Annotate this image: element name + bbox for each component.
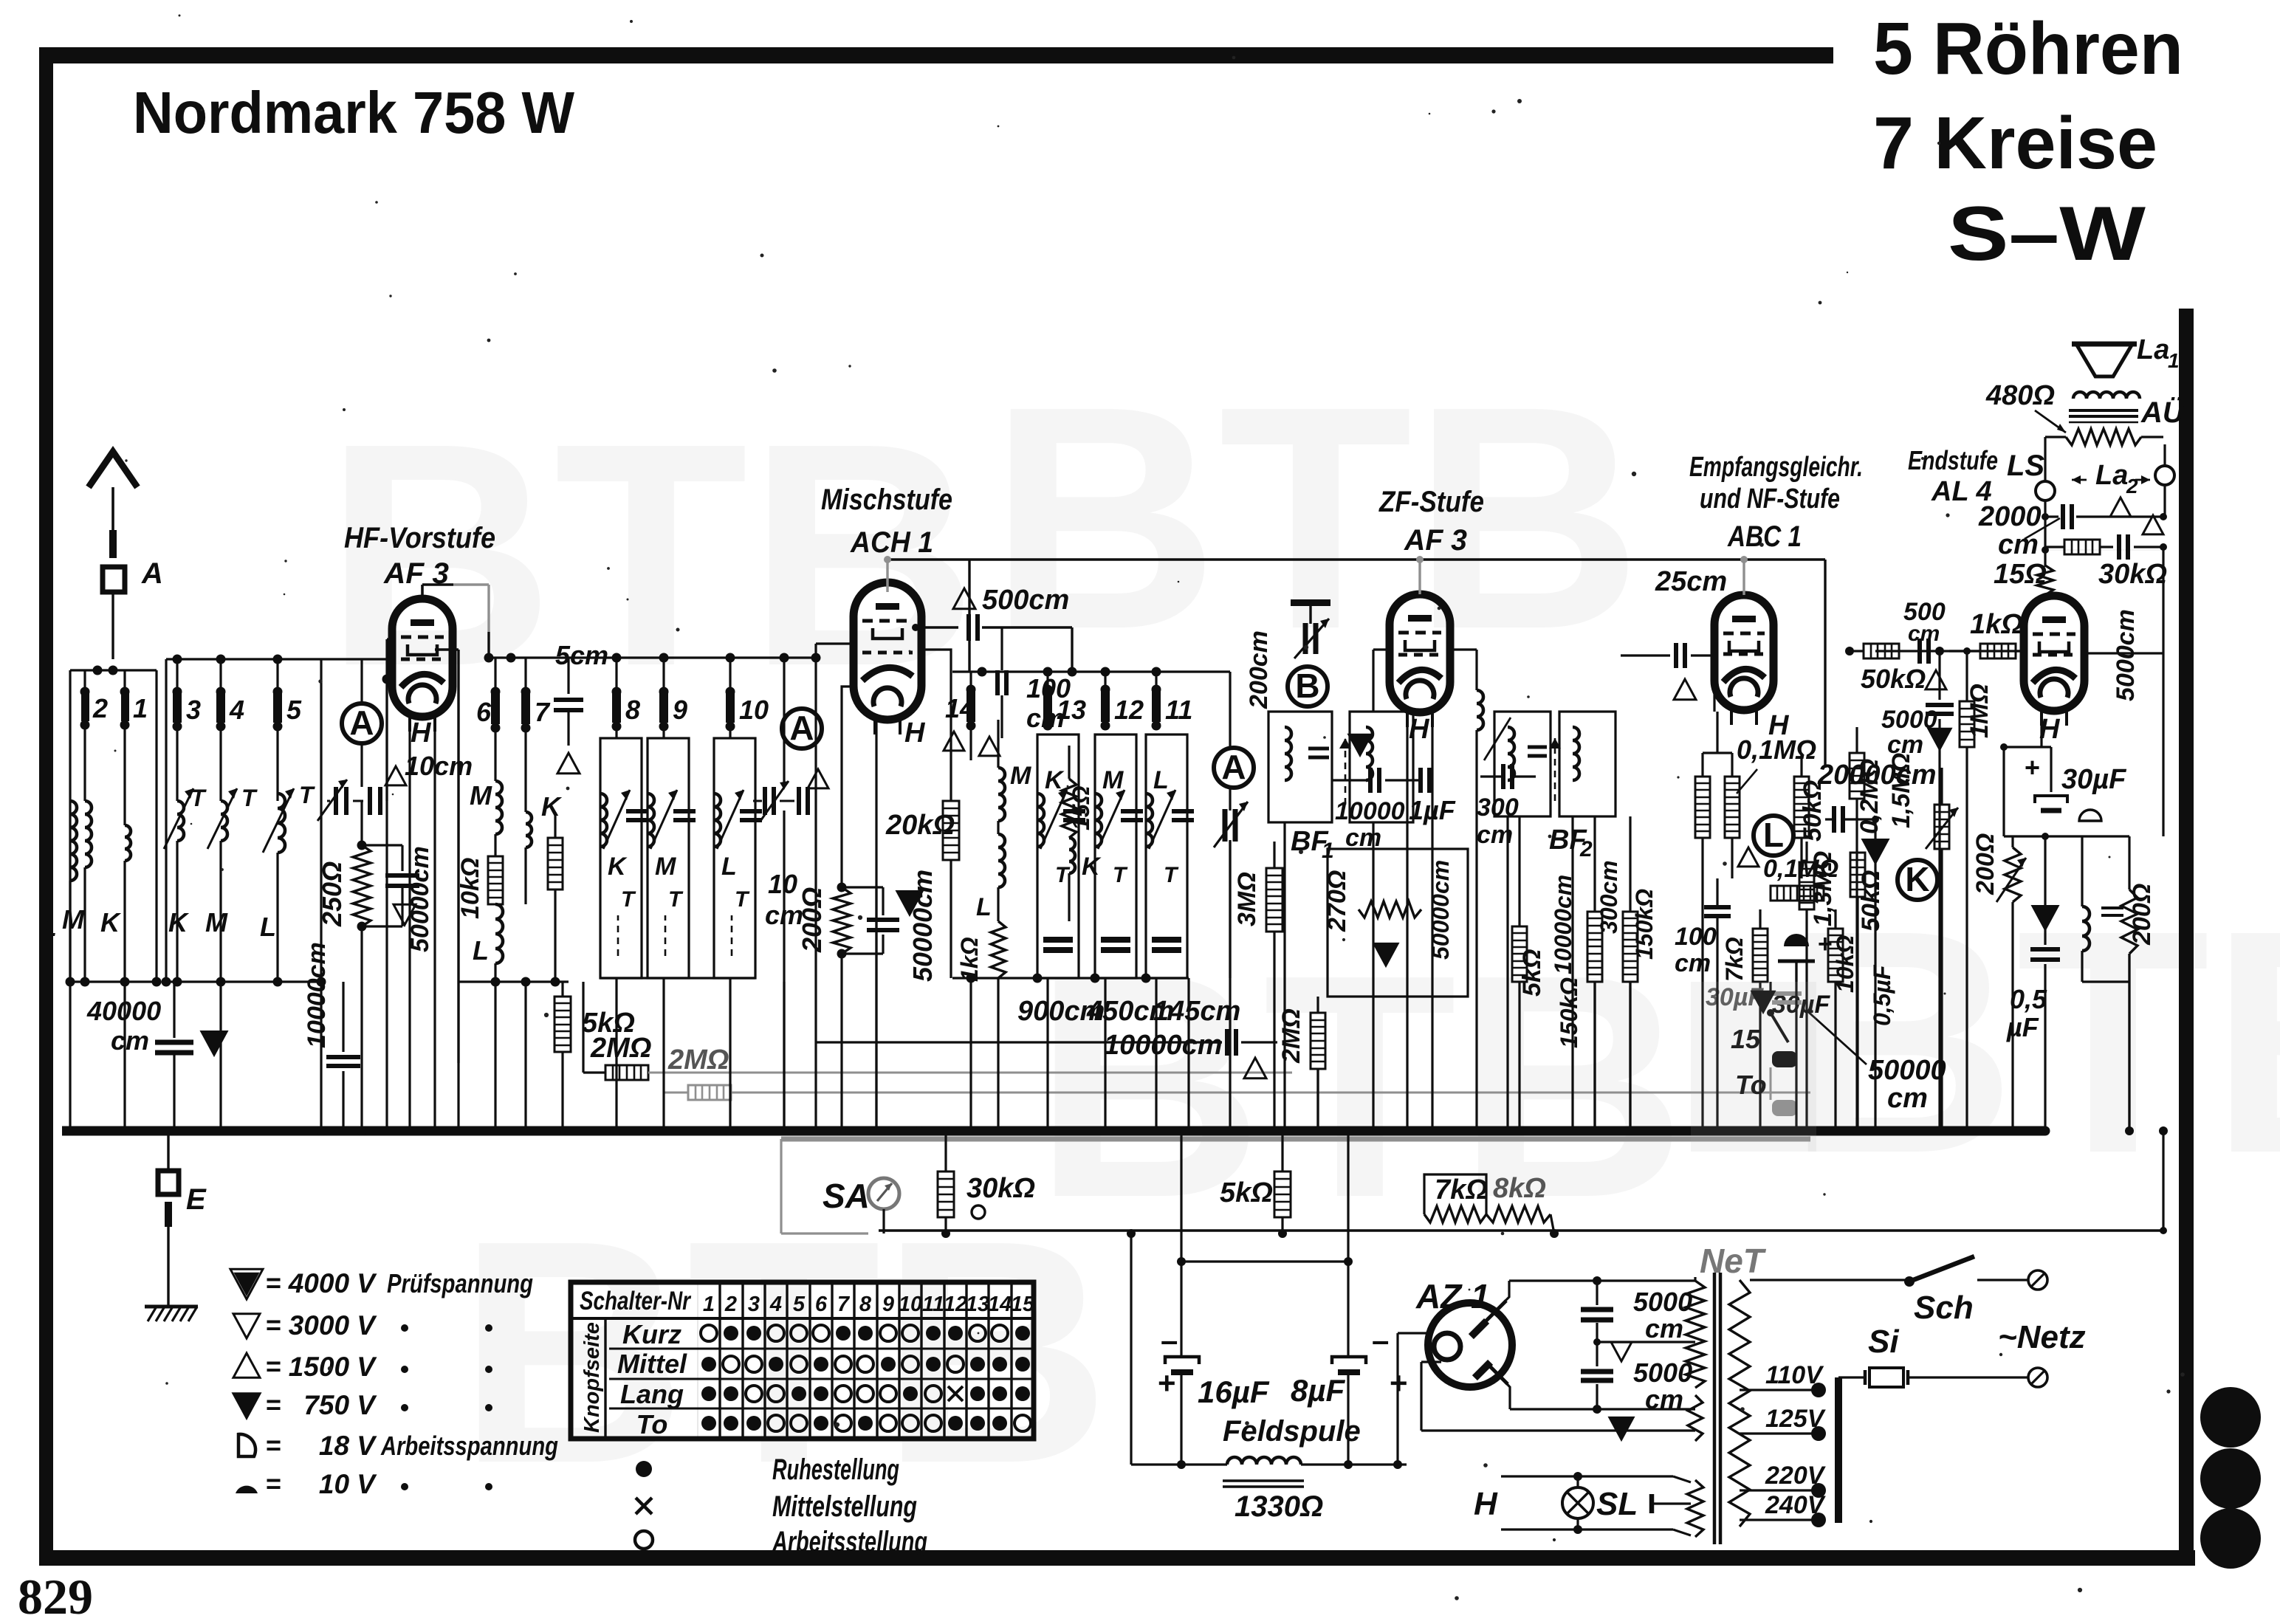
wire rail to ACH1 [746,656,816,658]
label 2 [92,693,108,723]
svg-text:S–W: S–W [1948,191,2146,277]
wire group2 top rail [166,655,321,664]
wire drop x1419 [1043,978,1052,1135]
svg-text:+: + [1158,1366,1176,1400]
wire drop x2630 [1937,982,1946,1135]
table dots row To [701,1415,1031,1431]
svg-text:B: B [1295,667,1319,705]
switch contact 14 [966,672,976,760]
label La2 [2072,460,2150,498]
svg-text:0,5: 0,5 [2010,984,2047,1014]
wire drop x524 [382,982,391,1135]
wire AVC line 1 [648,1072,1292,1074]
table dots row Lang [701,1386,1030,1402]
svg-text:1500 V: 1500 V [289,1352,378,1382]
svg-text:SL: SL [1596,1486,1638,1522]
marker 3000V PSU1 [1611,1342,1632,1361]
resistor 5kΩ lower2 [1274,1126,1291,1238]
wire AVC return line [879,1229,2163,1231]
tap 220V [1740,1462,1827,1498]
junction bus x236 [170,1126,179,1136]
wire ACH1 grid left [811,644,854,982]
wire drop x1785 [1314,1069,1322,1135]
svg-text:10: 10 [739,695,769,725]
tube AZ1 rectifier [1428,1301,1512,1387]
table col number 15 [1011,1293,1035,1316]
svg-text:3: 3 [748,1293,760,1316]
legend row 750 V [233,1389,492,1420]
wire drop x2160 [1590,982,1599,1135]
svg-text:T: T [735,887,750,912]
label 5 [286,695,302,725]
band filter BF1 can 1 [1268,712,1332,822]
svg-text:L: L [721,853,737,881]
wire AF3 cathode leads [410,732,435,982]
wire rail group3 [569,653,746,663]
svg-text:11: 11 [922,1293,944,1316]
capacitor 5000cm grid [1926,651,1954,1135]
svg-text:8kΩ: 8kΩ [1493,1173,1546,1204]
hum coil [2045,836,2129,982]
svg-text:200cm: 200cm [1245,630,1273,709]
circled A (3) [1214,748,1254,788]
svg-text:4: 4 [769,1293,782,1316]
tap 125V [1740,1405,1827,1441]
label M group2 [205,907,228,937]
svg-text:5: 5 [286,695,302,725]
wire 01M top rail [1703,712,1732,753]
label 50kΩ grid [1861,664,1926,694]
band filter BF2 can 2 [1549,712,1615,816]
label 2000 cm [1978,501,2060,560]
wire ACH1 anode box [842,650,951,856]
svg-text:=: = [266,1389,281,1420]
junction bus x95 [66,1126,75,1136]
resistor 1,3MΩ [1799,842,1814,982]
table col number 8 [859,1293,872,1316]
switch contact 12 [1101,672,1144,731]
label 10000cm osc [1104,1030,1223,1061]
wire AL4 cathode stub [2040,712,2042,747]
svg-text:0,1MΩ: 0,1MΩ [1737,734,1816,765]
wire AF3 left grid stub [382,639,393,982]
label La1 [2137,334,2180,372]
wire drop x2042 [1503,816,1512,1135]
junction bus x989 [726,1126,735,1136]
junction bus x1245 [915,1126,924,1136]
wire drop x1497 [1101,978,1110,1135]
resistor 200Ω mixer [833,856,851,1136]
svg-text:A: A [349,703,374,742]
table column line 13 [987,1282,989,1439]
svg-text:220V: 220V [1765,1462,1827,1490]
table column line 14 [1010,1282,1012,1439]
svg-text:L: L [976,893,992,921]
svg-text:2MΩ: 2MΩ [590,1033,651,1064]
svg-text:AF 3: AF 3 [1404,524,1467,557]
wire drop x2486 [1831,1048,1840,1135]
label T K [190,785,207,811]
svg-text:5kΩ: 5kΩ [1220,1177,1273,1208]
table column line 9 [898,1282,900,1439]
capacitor 5cm [554,658,583,746]
transformer secondary winding [1729,1280,1750,1527]
marker 1500V 10cm2 [808,769,828,788]
svg-text:7kΩ: 7kΩ [1721,937,1748,982]
capacitor 5000cm (1) PSU [1581,1281,1613,1342]
coil M RF tuned [221,801,227,982]
electrolytic 30µF abc [1778,930,1833,982]
wire chassis bus [62,1126,2045,1136]
svg-text:cm: cm [1645,1384,1683,1414]
trimmer arrow M [207,788,237,849]
wire drop x2326 [1713,982,1722,1135]
svg-text:16µF: 16µF [1198,1374,1270,1409]
wire drop x1860 [1369,822,1378,1135]
wire group3 drops [617,978,730,1131]
label L [41,912,57,942]
label ACH 1 [850,526,933,559]
switch contact 13 [1043,672,1087,731]
capacitor 40000cm [155,982,193,1136]
svg-text:10: 10 [768,869,797,899]
wire tap bus [1835,1377,1842,1523]
wire anode node [2042,517,2049,567]
marker 1500V abc [1738,847,1759,867]
wire AZ1 filament to winding [1421,1362,1695,1431]
circled A (2) [782,709,822,749]
wire PSU mid tap [1593,1338,1695,1346]
junction bus x835 [612,1126,622,1136]
marker 1500V 5000 AL4 [2143,515,2163,534]
label H (AF3-1) [411,718,432,749]
wire drop x1315 [966,978,975,1135]
svg-text:10: 10 [899,1293,922,1316]
label 900cm [1017,996,1105,1027]
wire osc rail [952,667,1189,677]
label BF2 [1549,825,1593,861]
wire drop x2384 [1756,1011,1765,1135]
wire drop x712 [521,982,530,1135]
switch contact 6 [491,658,501,781]
switch contact 4 [216,659,226,801]
resistor 2MΩ BF1 [1277,997,1325,1131]
label Netz [1998,1319,2086,1355]
svg-text:Prüfspannung: Prüfspannung [387,1268,533,1298]
table column line 1 [718,1282,721,1439]
svg-text:SA: SA [823,1177,870,1215]
resistor 50kΩ (d) [1850,853,1885,982]
svg-text:15Ω: 15Ω [1068,785,1094,830]
table dots row Mittel [701,1356,1030,1372]
svg-text:E: E [186,1183,207,1216]
svg-text:M: M [1010,762,1031,790]
svg-text:250Ω: 250Ω [317,861,347,927]
svg-text:1: 1 [703,1293,715,1316]
oscillator padder capacitor [1291,599,1330,658]
wire SA gray [781,1139,868,1234]
wire drop x589 [430,982,439,1135]
junction bus x1140 [837,1126,847,1136]
capacitor 50000cm mixer [837,883,900,959]
label 20000cm [1817,760,1937,791]
label 8 [625,695,640,725]
resistor 150kΩ (1) [1556,816,1602,1131]
svg-text:3: 3 [186,695,201,725]
coil M antenna [85,801,92,982]
label 1 [133,693,148,723]
output transformer secondary 480Ω winding [2045,429,2163,445]
capacitor 10000cm (AF3 anode) [326,982,360,1131]
transformer primary rectifier filament winding [1688,1395,1703,1441]
wire ZF cathode [1407,727,1432,982]
resistor 200Ω speaker [2082,836,2156,1131]
potentiometer 200Ω [1971,833,2026,902]
resistor 20kΩ [943,801,959,978]
resistor 5kΩ interstage [548,812,563,982]
svg-text:4000 V: 4000 V [288,1268,378,1298]
wire heater bus (gray) [781,1137,1810,1142]
svg-text:T: T [241,785,258,811]
wire ACH1 cathode drop [875,721,877,1131]
svg-text:cm: cm [1345,824,1381,852]
table column line 3 [763,1282,766,1439]
wire SA to line [882,1209,885,1234]
marker 750V BF1 [1349,734,1371,755]
svg-text:5000cm: 5000cm [2112,609,2140,701]
table col number 1 [703,1293,715,1316]
svg-text:2: 2 [724,1293,737,1316]
wire drop x2208 [1626,982,1635,1135]
tube AF3 HF-Vorstufe [392,599,453,732]
svg-text:0,2MΩ: 0,2MΩ [1855,759,1884,834]
label 100 cm abc [1675,923,1717,977]
svg-text:0,5µF: 0,5µF [1869,964,1895,1026]
wire drop x1610 [1184,978,1193,1135]
label 1330Ω [1235,1490,1323,1523]
label AZ1 [1415,1277,1490,1315]
svg-text:1: 1 [133,693,148,723]
coil can L group3 [714,738,762,978]
wire drop x2447 [1802,982,1811,1135]
band filter BF2 can 1 [1484,712,1551,816]
legend row 10 V [236,1468,492,1499]
resistor 5kΩ lower [554,982,571,1131]
svg-text:30kΩ: 30kΩ [2098,559,2167,590]
label AF 3 (2) [1404,524,1467,557]
wire 250 to bus [357,926,367,1136]
legend Arbeitsstellung [635,1526,927,1558]
svg-text:To: To [636,1409,668,1439]
wire drop x2515 [1852,878,1861,1135]
svg-text:50kΩ: 50kΩ [1857,870,1885,932]
output transformer core [2069,410,2138,422]
label 480Ω [1985,380,2066,433]
label H (ACH1) [904,718,926,749]
svg-text:5000: 5000 [1633,1358,1692,1388]
marker 3000V 50000cm [394,904,416,925]
coil can M osc [1095,734,1143,978]
tube AF3 ZF-Stufe [1390,594,1450,727]
switch table frame [571,1282,1034,1439]
resistor 7kΩ abc [1721,909,1768,1011]
table col number 9 [882,1293,894,1316]
band filter BF1 can 2 [1339,712,1413,822]
resistor 7kΩ lower [1424,1174,1488,1222]
svg-text:200Ω: 200Ω [1971,833,1999,895]
svg-text:6: 6 [815,1293,828,1316]
svg-text:Lang: Lang [620,1379,684,1409]
wire to 10cm (2) [780,653,789,788]
table row separators [698,1349,1034,1408]
wire drop x1187 [872,886,881,1135]
variable capacitor main [1214,788,1248,978]
label 7 [535,697,551,727]
coil K osc [1069,838,1102,921]
label 10 [739,695,769,725]
wire drop x1726 [1270,978,1279,1135]
table row Mittel [609,1349,698,1379]
table column line 15 [1032,1282,1034,1439]
svg-text:150kΩ: 150kΩ [1556,977,1582,1048]
svg-text:=: = [266,1267,281,1298]
resistor 50kΩ grid [1845,644,1899,658]
label 300 cm ZF [1477,794,1519,849]
label Endstufe [1908,445,1998,475]
coil K RF tuned [177,801,184,982]
svg-text:La: La [2095,460,2128,491]
label 20kΩ [885,810,955,841]
label 450cm [1086,996,1174,1027]
svg-text:300cm: 300cm [1596,860,1622,934]
legend Mittelstellung [636,1490,917,1523]
trimmer arrow K [164,788,193,849]
svg-text:=: = [266,1310,281,1340]
coil K antenna [125,825,131,982]
wire group3 bottom [600,977,755,979]
output transformer AÜ primary coil [2073,392,2140,399]
wire osc right rail [1189,672,1230,749]
svg-text:–: – [1161,1323,1178,1358]
legend row 18 V [238,1430,558,1461]
wire drop x2000 [1472,768,1481,1135]
switch contact 3 [173,659,182,801]
svg-text:2: 2 [2126,475,2138,498]
circled A (1) [342,703,382,743]
svg-text:2MΩ: 2MΩ [1277,1008,1305,1064]
label K group2 [168,907,190,937]
svg-text:K: K [168,907,190,937]
wire osc bottom rail [952,974,1189,983]
wire group1 to bus [66,982,126,1136]
switch contact 1 [120,670,130,825]
svg-text:7: 7 [535,697,551,727]
switch contact 7 [521,658,531,812]
svg-text:T: T [1055,863,1071,887]
marker 750V PSU2 [1610,1417,1633,1439]
table col number 13 [966,1293,989,1316]
meter SA [868,1178,899,1209]
label 5000 cm grid [1881,706,1937,759]
svg-text:T: T [299,782,315,808]
svg-text:10000cm: 10000cm [303,942,331,1048]
label A [141,557,163,590]
wire drop x621 [454,1063,463,1135]
wire drop x555 [405,982,414,1135]
svg-text:M: M [205,907,228,937]
label 100 cm [1026,673,1071,733]
label 15Ω [1994,559,2047,590]
marker 1500V 500cm [953,588,975,609]
label Mischstufe [821,484,952,516]
resistor 1MΩ [1960,647,1994,747]
junction bus x490 [357,1126,367,1136]
svg-text:K: K [1905,860,1929,898]
wire cap top rail [1177,1257,1353,1266]
label 30µF right [2061,764,2127,795]
coil K interstage [526,791,563,904]
capacitor 30µF gray [1706,983,1802,1012]
table col number 2 [724,1293,737,1316]
label 1,5MΩ [1887,753,1915,828]
table row Lang [609,1379,698,1409]
wire drop x1062 [780,982,789,1135]
svg-text:cm: cm [1908,622,1940,646]
speaker La1 [2072,344,2137,376]
wire HT line y758 [887,558,1825,560]
svg-text:12: 12 [1114,695,1144,725]
legend row 4000 V [230,1267,533,1299]
svg-text:Feldspule: Feldspule [1223,1415,1361,1448]
switch contact 10 [726,658,735,738]
wire drop x2726 [2008,902,2017,1135]
label 4 [229,695,244,725]
wire x2930 bus to return [2159,1126,2168,1234]
wire AZ1 anode bottom [1499,1375,1695,1414]
title Nordmark 758 W [133,80,574,145]
svg-text:A: A [141,557,163,590]
svg-text:12: 12 [944,1293,967,1316]
wire drop x2433 [1792,961,1801,1135]
marker 1500V 25cm [1674,679,1696,700]
wire AF3 top cap [422,585,494,663]
svg-text:8µF: 8µF [1291,1373,1346,1408]
circled L [1754,816,1793,856]
marker 750V 5000 grid [1929,729,1951,749]
wire AZ1 anode top [1497,1276,1695,1309]
wire group1 sides [70,670,157,982]
resistor 1kΩ osc [956,921,1006,982]
header 7 Kreise [1873,102,2157,185]
svg-text:M: M [470,780,492,811]
svg-text:0,1MΩ: 0,1MΩ [1763,855,1838,883]
svg-text:10cm: 10cm [405,751,473,781]
wire 15Ω to tube [2044,595,2046,598]
svg-text:1MΩ: 1MΩ [1965,684,1994,738]
label 500cm [982,585,1069,616]
resistor 15Ω osc [1062,746,1094,838]
coil can K osc [1037,734,1085,978]
terminal netz 1 [2028,1270,2047,1290]
svg-text:8: 8 [625,695,640,725]
switch contact 2 [80,670,90,801]
marker 1500V 10000 osc [1244,1058,1266,1078]
svg-text:Mittelstellung: Mittelstellung [772,1490,917,1523]
wire drop x2516 [1853,982,1862,1135]
label 5cm [555,640,608,670]
capacitor 100cm abc [1704,878,1731,982]
label 10000cm vert [303,942,331,1048]
